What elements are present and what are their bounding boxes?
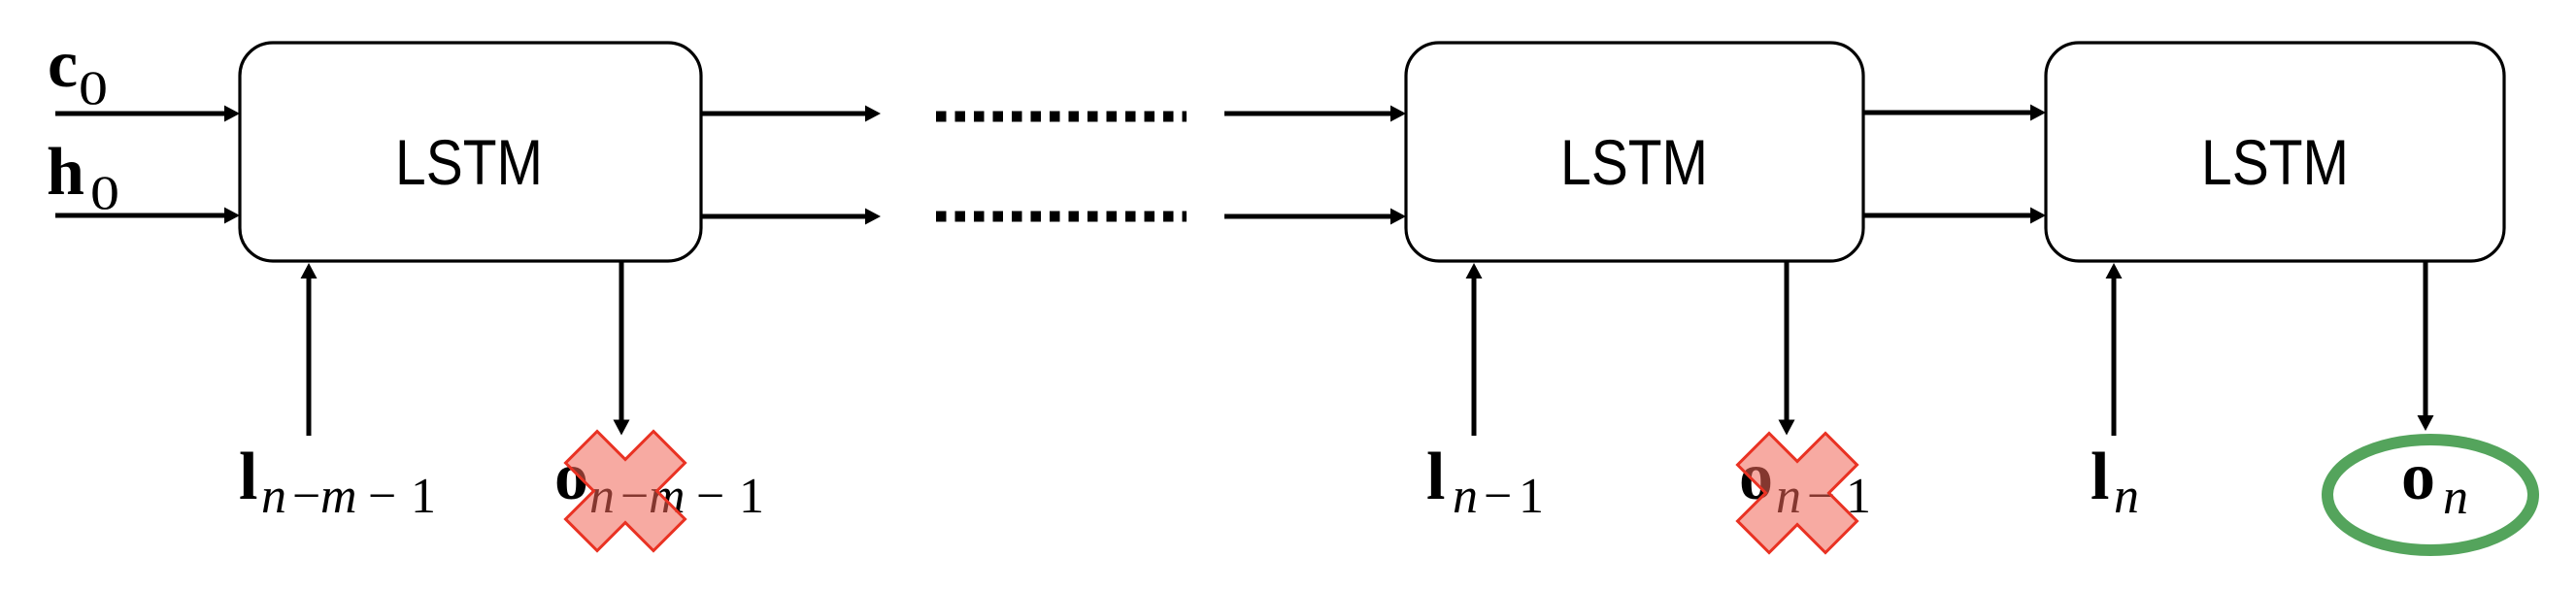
wire output arrow down from box1 xyxy=(614,261,630,436)
wire output arrow down from box2 xyxy=(1779,261,1795,436)
wire box1 lower output arrow xyxy=(701,209,881,225)
node l_{n-1} label xyxy=(1426,440,1544,524)
svg-text:n: n xyxy=(2443,470,2468,525)
svg-text:−: − xyxy=(368,469,396,524)
green ellipse around o_n xyxy=(2327,440,2533,550)
wire dotted continuation upper xyxy=(936,112,1187,122)
svg-text:n: n xyxy=(2114,469,2139,524)
svg-text:m: m xyxy=(320,469,357,524)
svg-text:h: h xyxy=(47,135,84,210)
svg-text:l: l xyxy=(2091,440,2109,514)
node c0 label xyxy=(48,27,108,115)
wire input arrow up into box1 xyxy=(301,263,318,436)
svg-text:0: 0 xyxy=(79,61,108,115)
svg-text:LSTM: LSTM xyxy=(2201,127,2349,199)
wire dotted continuation lower xyxy=(936,212,1187,222)
wire box2 to box3 upper arrow xyxy=(1863,105,2046,121)
svg-text:n: n xyxy=(261,469,286,524)
svg-text:1: 1 xyxy=(411,469,436,524)
node h0 label xyxy=(47,135,119,219)
svg-text:l: l xyxy=(239,440,257,514)
svg-text:o: o xyxy=(2401,440,2435,514)
svg-text:−: − xyxy=(292,469,320,524)
node l_{n-m-1} label xyxy=(239,440,436,524)
wire c0 arrow into box1 xyxy=(55,106,240,122)
svg-text:n: n xyxy=(1453,469,1478,524)
LSTM box 3 xyxy=(2046,43,2504,261)
LSTM box 2 xyxy=(1406,43,1863,261)
svg-text:c: c xyxy=(48,27,78,102)
red X mark over o_{n-1} xyxy=(1709,405,1885,580)
svg-text:0: 0 xyxy=(90,166,119,219)
wire box2 to box3 lower arrow xyxy=(1863,208,2046,224)
svg-text:−: − xyxy=(696,469,724,524)
LSTM box 1 xyxy=(240,43,701,261)
svg-text:1: 1 xyxy=(1519,469,1544,524)
node l_n label xyxy=(2091,440,2139,524)
node o_{n-1} label xyxy=(1739,440,1871,524)
svg-text:−: − xyxy=(1484,469,1512,524)
node o_n label xyxy=(2401,440,2468,525)
svg-text:LSTM: LSTM xyxy=(395,127,543,199)
svg-text:LSTM: LSTM xyxy=(1560,127,1708,199)
wire h0 arrow into box1 xyxy=(55,208,240,224)
node o_{n-m-1} label xyxy=(554,440,764,524)
wire output arrow down from box3 xyxy=(2418,261,2434,431)
wire input arrow up into box2 xyxy=(1466,263,1483,436)
wire input arrow up into box3 xyxy=(2106,263,2123,436)
wire upper arrow into box2 xyxy=(1224,106,1406,122)
red X mark over o_{n-m-1} xyxy=(537,403,713,578)
svg-text:l: l xyxy=(1426,440,1445,514)
wire box1 upper output arrow xyxy=(701,106,881,122)
svg-text:1: 1 xyxy=(739,469,764,524)
wire lower arrow into box2 xyxy=(1224,209,1406,225)
